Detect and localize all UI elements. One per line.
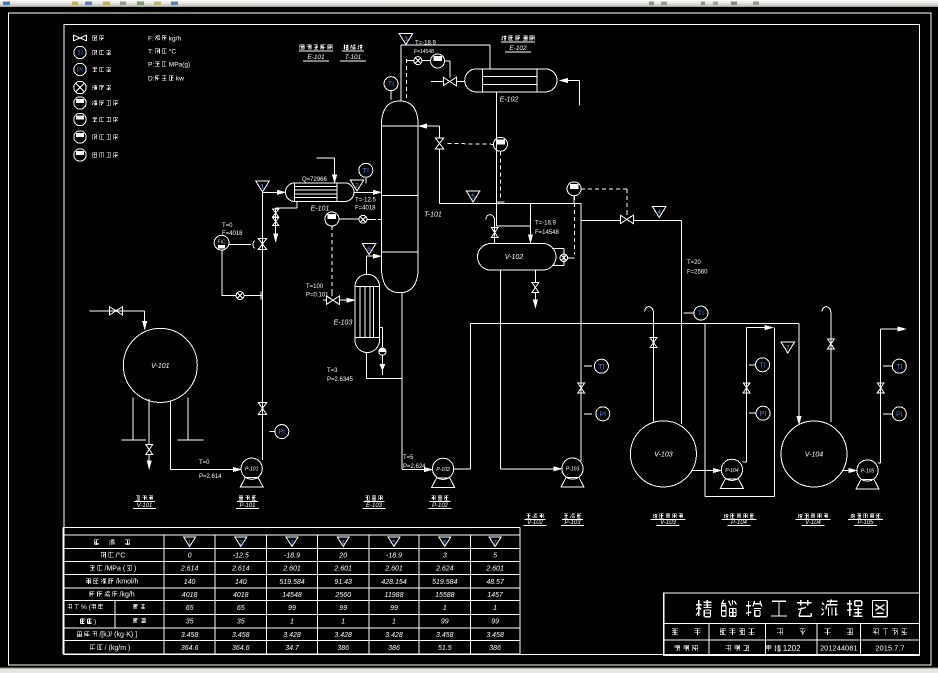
flow arrow: [347, 298, 354, 302]
flow arrow: [234, 468, 241, 472]
svg-text:F=14548: F=14548: [535, 230, 560, 236]
signal to level gauge: [568, 257, 575, 259]
stream flag 6: [362, 244, 376, 255]
table sub divider: [114, 600, 116, 627]
signal LC down: [500, 151, 502, 200]
legend controller symbol: [74, 131, 86, 143]
svg-text:P-103: P-103: [566, 467, 580, 473]
vessel V-101: [123, 328, 197, 402]
wire P-105 discharge: [878, 462, 881, 464]
svg-text:F=14548: F=14548: [414, 49, 434, 55]
svg-text:2.601: 2.601: [333, 566, 352, 573]
svg-text:T=0: T=0: [222, 223, 233, 229]
pump P-102: [433, 458, 454, 479]
label V-104: [798, 514, 828, 519]
svg-text:P-102: P-102: [436, 467, 450, 473]
svg-text:MPa(g): MPa(g): [169, 61, 190, 68]
controller: [494, 137, 508, 151]
svg-text:TI: TI: [388, 81, 394, 88]
wire TC to column tap: [339, 218, 359, 220]
svg-text:99: 99: [441, 619, 449, 626]
header T-101 column: [344, 44, 363, 49]
legend controller symbol: [74, 113, 86, 125]
svg-text:386: 386: [337, 645, 349, 652]
E-101 utility inlet: [317, 157, 335, 159]
label P-101: [239, 496, 256, 501]
svg-text:0: 0: [188, 553, 192, 560]
legend controller symbol: [74, 149, 86, 161]
svg-text:99: 99: [288, 605, 296, 612]
legend instrument TI: [74, 46, 86, 58]
svg-text:T=3: T=3: [327, 368, 338, 374]
svg-text:1: 1: [341, 619, 345, 626]
stream flag 3: [286, 537, 298, 547]
wire P-102 discharge riser: [454, 468, 471, 470]
wire overhead vapour line: [400, 45, 402, 101]
signal LC to valve: [446, 142, 494, 145]
V-102 vent with hook: [494, 220, 496, 243]
header E-102 condenser: [502, 36, 535, 41]
heat exchanger E-101: [286, 183, 355, 202]
drawing title: [696, 599, 887, 616]
svg-text:TI: TI: [363, 168, 369, 175]
valve: [491, 228, 498, 238]
legend instrument PI: [74, 63, 86, 75]
svg-text:F=4018: F=4018: [222, 231, 243, 237]
flow arrow: [274, 234, 278, 241]
condenser E-102: [465, 69, 557, 92]
svg-text:20: 20: [338, 553, 347, 560]
legend valve symbol: [74, 35, 87, 41]
stream flag 2: [235, 537, 247, 547]
flow arrow: [425, 468, 432, 472]
instrument PI P-103 riser: [584, 413, 592, 415]
svg-text:99: 99: [491, 619, 499, 626]
svg-text:4018: 4018: [182, 592, 198, 599]
svg-text:1: 1: [261, 184, 265, 191]
instrument TI: [892, 359, 906, 373]
controller: [567, 182, 581, 196]
svg-text:364.6: 364.6: [181, 645, 199, 652]
svg-text:E-103: E-103: [334, 320, 353, 327]
steam line into E-103: [323, 299, 326, 301]
svg-text:2: 2: [239, 540, 243, 547]
svg-text:T-101: T-101: [424, 212, 442, 219]
signal TC down to steam valve: [331, 226, 333, 292]
svg-text:F=4018: F=4018: [355, 206, 376, 212]
svg-text:2.601: 2.601: [282, 566, 301, 573]
wire V-101 outlet to P-101: [169, 401, 171, 470]
svg-text:P=2.624: P=2.624: [403, 464, 426, 470]
table header stream numbers: [94, 539, 130, 545]
V-101 legs: [132, 398, 134, 441]
signal to control valve: [445, 60, 451, 62]
E-103 condensate trap: [380, 326, 383, 328]
title row values: [675, 645, 699, 651]
svg-text:6: 6: [443, 540, 447, 547]
svg-text:T=20: T=20: [687, 260, 702, 266]
svg-text:3.458: 3.458: [436, 632, 454, 639]
svg-text:2.601: 2.601: [384, 566, 403, 573]
svg-text:T=-12.5: T=-12.5: [355, 198, 377, 204]
svg-text:2.601: 2.601: [485, 566, 504, 573]
controller: [431, 54, 445, 68]
stream flag 5: [388, 537, 400, 547]
svg-text:3.428: 3.428: [334, 632, 352, 639]
svg-text:P:: P:: [148, 61, 154, 68]
wire reflux header: [440, 203, 582, 205]
svg-text:91.43: 91.43: [334, 579, 352, 586]
pump P-104: [721, 459, 742, 480]
svg-text:364.6: 364.6: [232, 645, 250, 652]
wire into E-101: [263, 191, 281, 193]
svg-text:99: 99: [390, 605, 398, 612]
svg-text:): ): [134, 565, 136, 572]
flow arrow: [898, 327, 905, 331]
label P-104: [724, 514, 754, 519]
composition label: [67, 604, 72, 609]
wire to flow element: [407, 60, 414, 62]
instrument PI on riser: [270, 431, 275, 433]
svg-text:TI: TI: [759, 362, 765, 369]
valve: [146, 445, 153, 455]
legend controller symbol: [74, 97, 86, 109]
instrument TI P-104: [749, 364, 755, 366]
instrument TI P-103 riser: [584, 365, 592, 367]
flow arrow: [333, 175, 337, 182]
svg-text:-18.9: -18.9: [386, 553, 402, 560]
valve: [258, 239, 266, 250]
wire V-103 to P-104: [692, 470, 717, 472]
flow arrow: [554, 467, 561, 471]
flow arrow: [143, 322, 147, 329]
flow element: [414, 57, 422, 65]
svg-text:T=5: T=5: [403, 455, 414, 461]
svg-text:3.458: 3.458: [181, 632, 199, 639]
label V-101: [136, 496, 153, 501]
V-103 vent with hook: [653, 312, 655, 422]
vessel V-103: [630, 421, 696, 487]
V-104 vent with hook: [830, 312, 832, 422]
svg-text:35: 35: [237, 619, 245, 626]
svg-text:F:: F:: [148, 35, 154, 42]
flow element: [560, 254, 568, 262]
valve: [110, 307, 123, 315]
svg-text:2.614: 2.614: [180, 566, 199, 573]
title block: [664, 593, 920, 656]
stream flag 3: [399, 34, 413, 45]
pump P-101: [241, 458, 262, 479]
wire orifice branch: [222, 295, 236, 297]
flow arrow: [374, 190, 381, 194]
valve: [273, 209, 279, 217]
svg-text:4: 4: [341, 540, 345, 547]
wire recycle U-loop: [704, 324, 706, 497]
svg-text:TI: TI: [698, 311, 704, 318]
svg-text:1: 1: [188, 540, 192, 547]
svg-text:3.428: 3.428: [283, 632, 301, 639]
svg-text:2: 2: [355, 183, 359, 190]
valve: [258, 403, 266, 415]
label V-103: [653, 514, 683, 519]
wire V-102 to P-103: [499, 270, 501, 469]
svg-text:99: 99: [339, 605, 347, 612]
pump P-103: [562, 458, 583, 479]
svg-text:V-104: V-104: [805, 452, 824, 459]
flow arrow: [849, 469, 856, 473]
svg-text:V-102: V-102: [505, 254, 524, 261]
svg-text:3.458: 3.458: [486, 632, 504, 639]
svg-text:15588: 15588: [435, 592, 455, 599]
valve: [273, 217, 279, 225]
instrument PI P-104: [749, 412, 756, 414]
flow arrow: [714, 469, 721, 473]
svg-text:3: 3: [404, 36, 408, 43]
svg-text:TI: TI: [896, 364, 902, 371]
svg-text:): ): [94, 619, 96, 626]
instrument PI: [756, 406, 770, 420]
svg-text:519.584: 519.584: [432, 579, 457, 586]
svg-text:kw: kw: [176, 75, 184, 82]
svg-text:V-101: V-101: [151, 363, 170, 370]
svg-text:kg/h: kg/h: [169, 35, 182, 42]
valve: [877, 383, 884, 393]
svg-text:2560: 2560: [334, 592, 351, 599]
wire distillate down to V-103: [680, 221, 682, 425]
svg-text:P=2.614: P=2.614: [199, 474, 222, 480]
svg-text:1: 1: [290, 619, 294, 626]
flow arrow: [797, 417, 801, 424]
svg-text:PI: PI: [278, 429, 285, 436]
svg-text:E-102: E-102: [509, 45, 527, 52]
vessel V-104: [781, 421, 847, 487]
valve: [435, 138, 443, 149]
svg-text:PI: PI: [760, 411, 767, 418]
svg-text:TI: TI: [77, 50, 83, 57]
svg-text:/[kJ/ (kg·K) ]: /[kJ/ (kg·K) ]: [99, 632, 137, 639]
control valve: [443, 77, 456, 85]
svg-text:PI: PI: [77, 67, 83, 74]
wire into E-102: [431, 81, 443, 83]
svg-text:PI: PI: [599, 411, 606, 418]
svg-text:3.428: 3.428: [385, 632, 403, 639]
flow arrow: [529, 235, 533, 242]
controller PC: [573, 196, 575, 204]
svg-text:1: 1: [443, 605, 447, 612]
svg-text:386: 386: [489, 645, 501, 652]
stream flag 4: [652, 207, 666, 218]
flow element: [236, 292, 244, 300]
svg-text:5: 5: [392, 540, 396, 547]
svg-text:T=-18.9: T=-18.9: [415, 41, 437, 47]
svg-text:°C: °C: [169, 47, 177, 55]
flow arrow: [147, 461, 151, 468]
svg-text:T=100: T=100: [306, 284, 324, 290]
svg-text:2.614: 2.614: [231, 566, 250, 573]
header E-101 feed preheater: [300, 45, 333, 50]
label V-102: [527, 514, 544, 519]
instrument TI P-105: [883, 365, 892, 367]
status bar strip (bottom of screenshot): [0, 669, 938, 673]
svg-text:7: 7: [493, 540, 497, 547]
svg-text:3: 3: [290, 540, 294, 547]
svg-text:140: 140: [235, 579, 247, 586]
svg-text:428.154: 428.154: [381, 579, 406, 586]
svg-text:P-105: P-105: [861, 469, 875, 475]
signal PC to valve: [581, 188, 627, 190]
svg-text:TI: TI: [598, 364, 604, 371]
valve: [828, 339, 835, 349]
instrument PI: [275, 425, 289, 439]
svg-text:E-101: E-101: [307, 54, 325, 61]
label P-105: [850, 514, 880, 519]
wire P-101 discharge riser: [262, 192, 264, 460]
stream flag 1: [184, 537, 196, 547]
svg-text:PI: PI: [896, 411, 903, 418]
flow arrow: [561, 79, 568, 83]
svg-text:/°C: /°C: [116, 551, 126, 559]
svg-text:2015.7.7: 2015.7.7: [875, 644, 904, 653]
svg-text:201244081: 201244081: [820, 644, 858, 653]
svg-text:65: 65: [186, 605, 194, 612]
svg-text:519.584: 519.584: [279, 579, 304, 586]
svg-text:4: 4: [657, 209, 661, 216]
svg-text:/MPa (: /MPa (: [105, 565, 126, 572]
svg-text:F=2560: F=2560: [687, 270, 708, 276]
svg-text:48.57: 48.57: [486, 579, 505, 586]
svg-text:% (: % (: [81, 604, 92, 611]
stream flag 7: [489, 537, 501, 547]
stream flag 6: [439, 537, 451, 547]
instrument PI P-105: [883, 413, 892, 415]
wire E-103 liquid feed loop: [366, 353, 368, 379]
wire bottoms header to V-104: [471, 323, 799, 325]
controller FIC: [214, 235, 229, 250]
wire E-102 outlet: [496, 92, 498, 226]
valve: [578, 383, 585, 393]
flow arrow: [534, 300, 538, 307]
flow arrow: [765, 326, 772, 330]
wire column bottoms to P-102: [401, 293, 403, 470]
svg-text:-18.9: -18.9: [284, 553, 300, 560]
pump P-105: [857, 460, 878, 481]
wire V-104 to P-105: [843, 470, 853, 472]
svg-text:140: 140: [184, 579, 196, 586]
svg-text:34.7: 34.7: [285, 645, 300, 652]
svg-text:7: 7: [786, 345, 790, 352]
flow element: [359, 215, 367, 223]
control valve: [326, 296, 339, 304]
svg-text:P=2.6345: P=2.6345: [327, 377, 354, 383]
svg-text:65: 65: [237, 605, 245, 612]
wire feed inlet to V-101: [90, 310, 145, 312]
stream flag 2: [350, 180, 364, 191]
stream flag 7: [781, 342, 795, 353]
svg-text:Q=72966: Q=72966: [302, 177, 328, 183]
svg-text:3.458: 3.458: [232, 632, 250, 639]
wire P-103 discharge riser: [580, 204, 582, 461]
label P-103: [564, 514, 581, 519]
svg-text:/ (kg/m ): / (kg/m ): [105, 645, 131, 652]
label E-103 bottom: [366, 496, 383, 501]
svg-text:35: 35: [186, 619, 194, 626]
svg-text:T-101: T-101: [345, 54, 362, 61]
svg-text:1457: 1457: [487, 592, 504, 599]
flow arrow: [380, 365, 384, 371]
controller: [325, 212, 339, 226]
V-101 drain line: [148, 399, 150, 444]
instrument PI: [892, 407, 906, 421]
svg-text:5: 5: [471, 194, 475, 201]
svg-text:1: 1: [493, 605, 497, 612]
svg-text:6: 6: [367, 246, 371, 253]
stream data table: [63, 527, 520, 529]
flow arrow: [420, 124, 427, 128]
wire distillate product line: [581, 220, 620, 222]
svg-text:P=0.101: P=0.101: [306, 293, 329, 299]
wire E-101 to column: [354, 191, 377, 193]
svg-text:/kg/h: /kg/h: [120, 592, 135, 599]
instrument TI on V-103 feed: [683, 312, 693, 314]
instrument TI: [594, 359, 608, 373]
instrument TI: [694, 306, 708, 320]
svg-text:T:: T:: [148, 48, 153, 55]
svg-text:T=0: T=0: [199, 460, 210, 466]
wire P-104 discharge: [743, 461, 747, 463]
svg-text:V-103: V-103: [654, 452, 673, 459]
svg-text:1: 1: [392, 619, 396, 626]
svg-text:1202: 1202: [783, 644, 801, 653]
label P-102: [432, 496, 449, 501]
vessel V-102: [478, 244, 557, 271]
instrument PI: [596, 407, 610, 421]
stream flag 4: [337, 537, 349, 547]
table row labels: [101, 552, 106, 557]
V-102 drain: [534, 270, 536, 283]
valve: [532, 283, 539, 293]
svg-text:14548: 14548: [282, 592, 302, 599]
stream flag 1: [256, 181, 270, 192]
instrument TI: [384, 77, 398, 91]
title row headers: [672, 629, 700, 635]
instrument TI: [359, 163, 373, 177]
svg-text:P-104: P-104: [725, 468, 739, 474]
flow arrow: [373, 254, 380, 258]
signal dashed drop: [406, 59, 408, 99]
valve: [650, 338, 657, 348]
E-101 condensate drain: [296, 202, 298, 208]
svg-text:11988: 11988: [385, 592, 404, 599]
signal FIC to valve: [229, 244, 251, 246]
svg-text:51.5: 51.5: [438, 645, 452, 652]
wire E-103 vapour return to column: [366, 256, 368, 274]
flow arrow: [278, 190, 285, 194]
svg-text:P-101: P-101: [245, 467, 259, 473]
svg-text:5: 5: [493, 553, 497, 560]
signal FIC to orifice: [221, 250, 223, 296]
stream flag 5: [466, 191, 480, 202]
svg-text:FIC: FIC: [218, 240, 226, 246]
svg-text:-12.5: -12.5: [233, 553, 249, 560]
svg-text:/kmol/h: /kmol/h: [116, 579, 139, 586]
instrument TI: [756, 358, 770, 372]
reboiler E-103: [355, 274, 380, 352]
svg-text:3: 3: [443, 553, 447, 560]
svg-text:D:: D:: [148, 75, 155, 82]
svg-text:T=-18.9: T=-18.9: [535, 221, 557, 227]
legend flow element symbol: [74, 81, 86, 93]
svg-text:4018: 4018: [233, 592, 249, 599]
